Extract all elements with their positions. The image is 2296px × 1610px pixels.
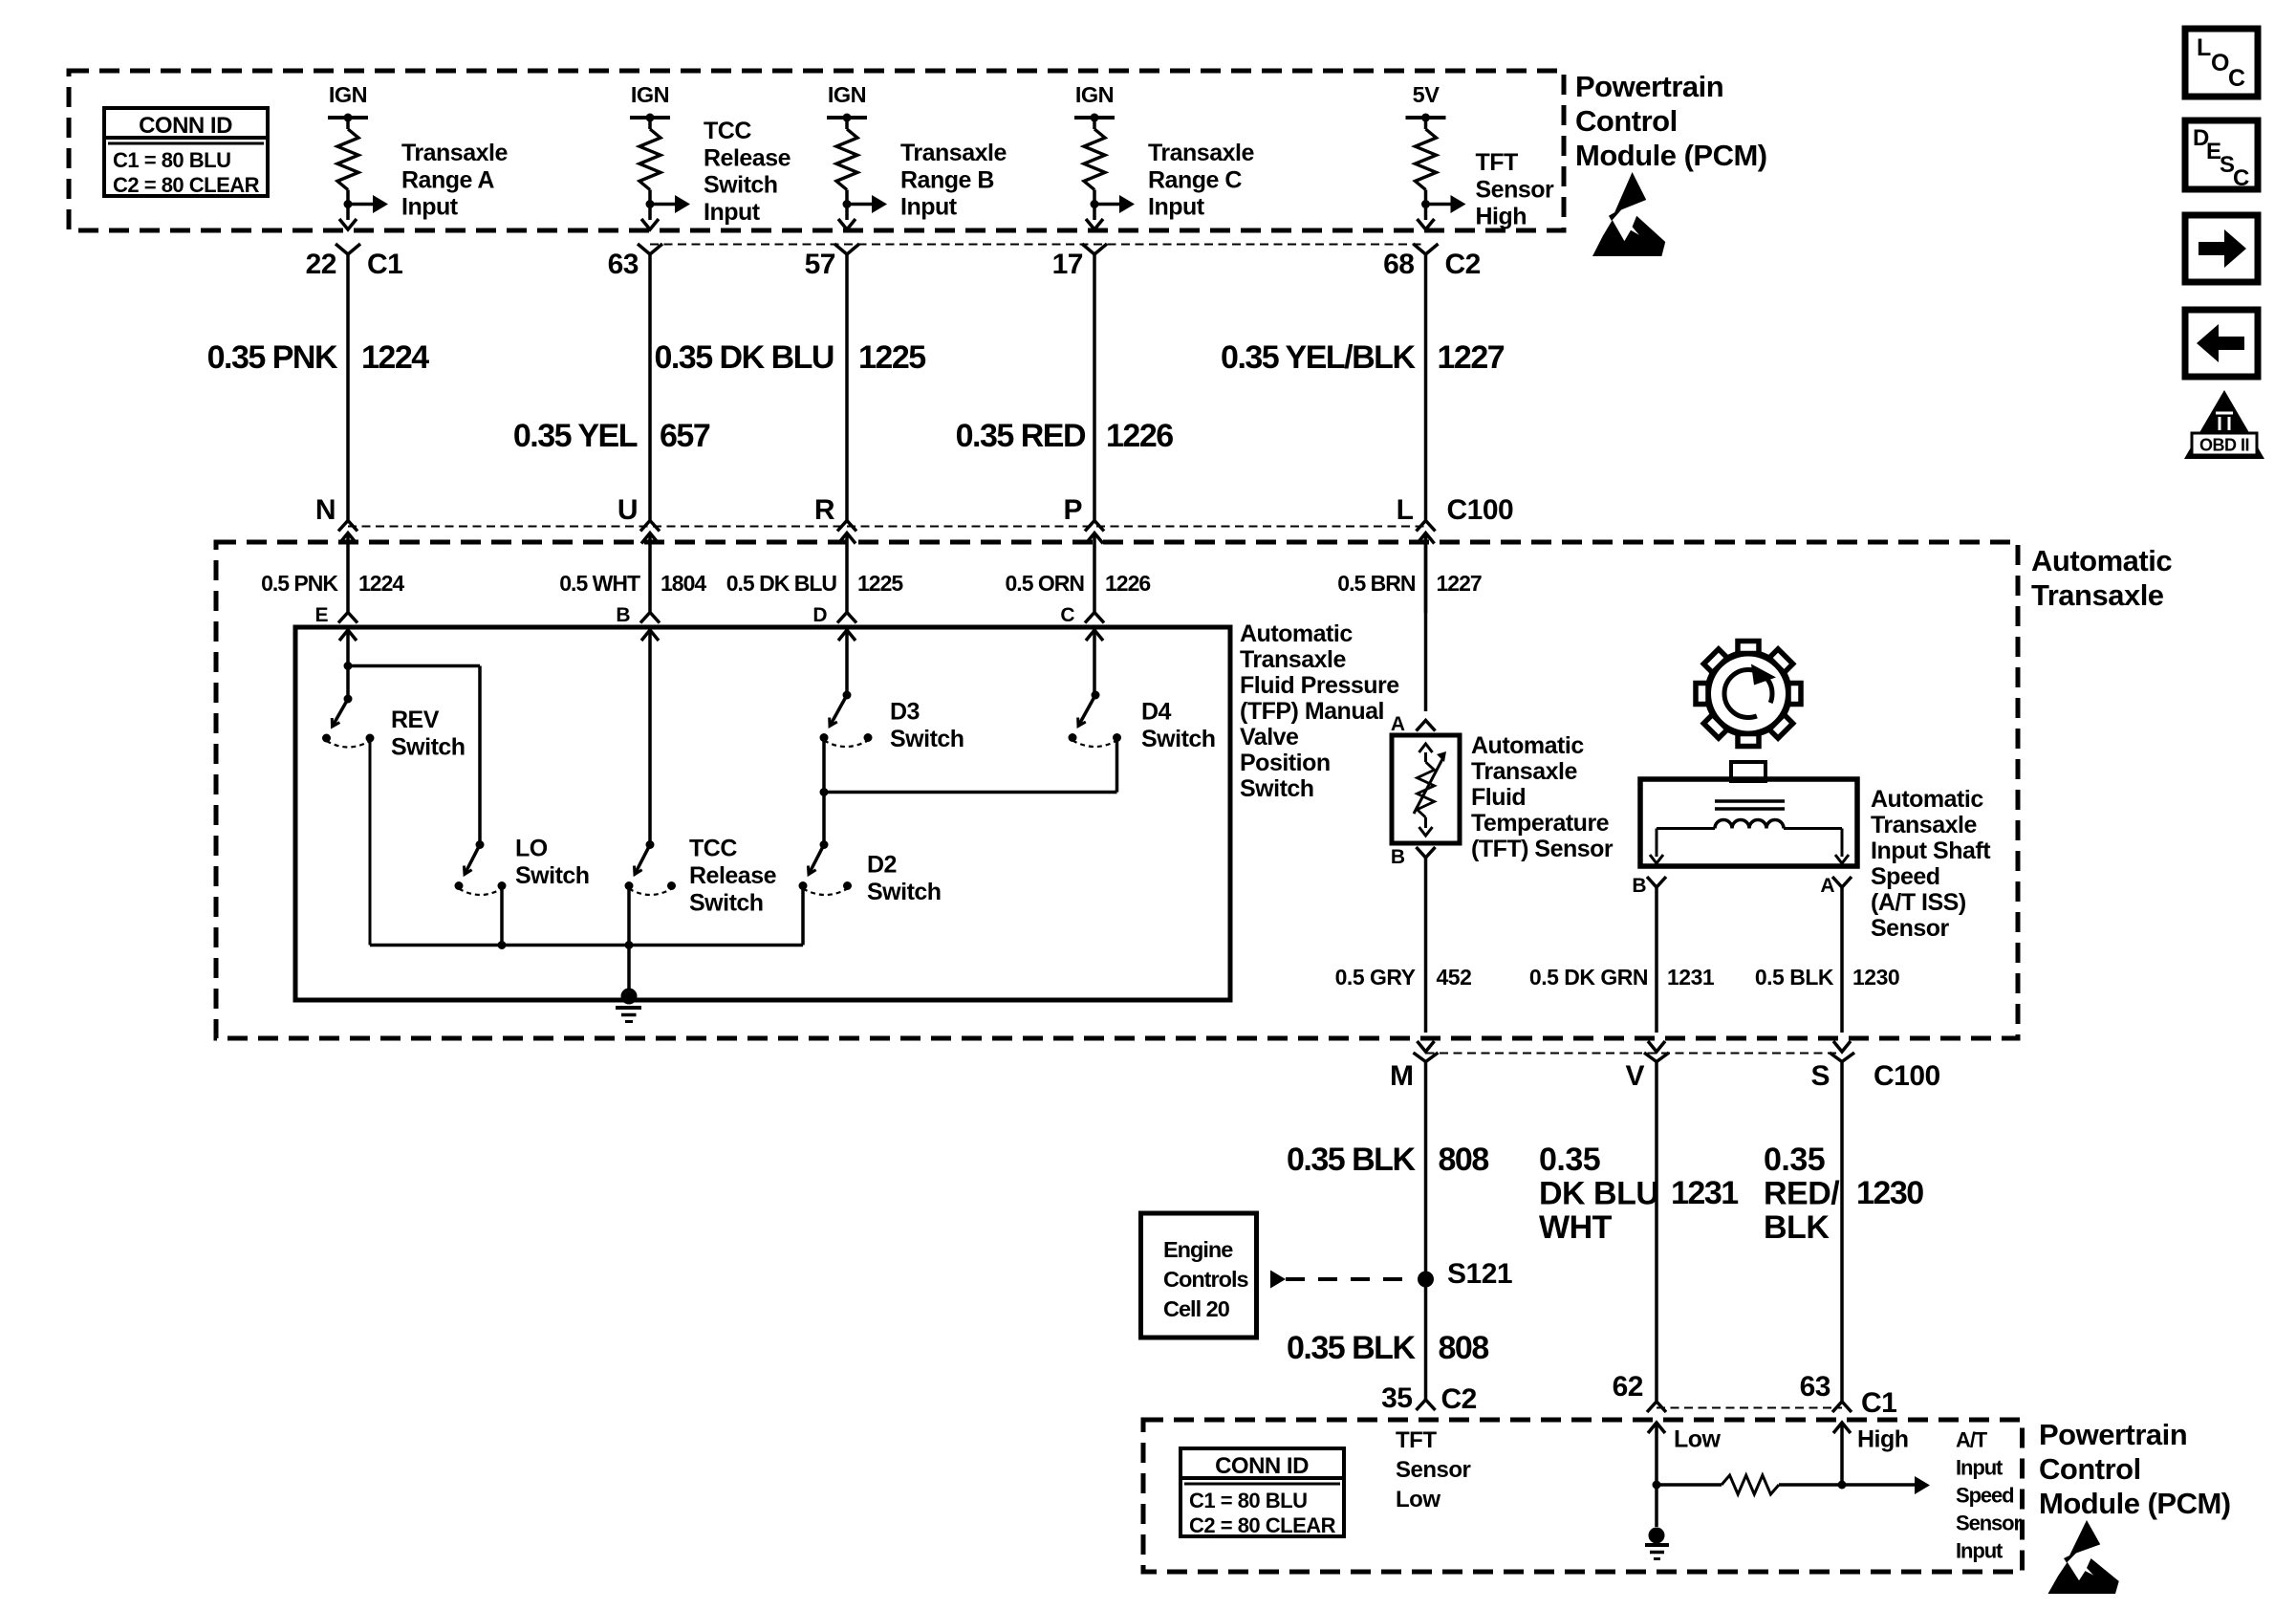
svg-text:0.5 DK GRN: 0.5 DK GRN bbox=[1529, 965, 1648, 990]
svg-text:Input: Input bbox=[1956, 1456, 2004, 1480]
svg-text:C100: C100 bbox=[1447, 494, 1514, 526]
svg-text:WHT: WHT bbox=[1539, 1209, 1613, 1246]
svg-text:Input: Input bbox=[900, 194, 958, 221]
svg-text:452: 452 bbox=[1437, 965, 1472, 990]
svg-text:U: U bbox=[617, 494, 638, 526]
svg-text:1224: 1224 bbox=[361, 339, 429, 376]
svg-text:Input: Input bbox=[1956, 1539, 2004, 1563]
svg-text:C1 = 80 BLU: C1 = 80 BLU bbox=[113, 148, 231, 172]
svg-text:Powertrain: Powertrain bbox=[1575, 70, 1723, 103]
svg-text:Powertrain: Powertrain bbox=[2039, 1418, 2187, 1451]
svg-text:High: High bbox=[1857, 1426, 1909, 1453]
svg-text:Switch: Switch bbox=[890, 726, 964, 752]
svg-text:Switch: Switch bbox=[1240, 775, 1314, 802]
svg-text:IGN: IGN bbox=[631, 82, 669, 107]
svg-text:Transaxle: Transaxle bbox=[2031, 578, 2164, 612]
svg-text:0.35 BLK: 0.35 BLK bbox=[1287, 1142, 1416, 1178]
svg-text:C2: C2 bbox=[1441, 1383, 1477, 1415]
svg-text:Sensor: Sensor bbox=[1871, 915, 1950, 942]
svg-text:1225: 1225 bbox=[858, 339, 925, 376]
svg-text:Position: Position bbox=[1240, 750, 1331, 776]
svg-text:Sensor: Sensor bbox=[1476, 176, 1555, 203]
svg-text:Release: Release bbox=[689, 862, 777, 889]
svg-text:C2: C2 bbox=[1445, 249, 1481, 280]
svg-text:1226: 1226 bbox=[1105, 571, 1150, 596]
svg-text:Cell 20: Cell 20 bbox=[1163, 1296, 1230, 1321]
svg-text:D: D bbox=[812, 604, 827, 626]
svg-text:LO: LO bbox=[515, 836, 548, 862]
svg-text:Fluid Pressure: Fluid Pressure bbox=[1240, 672, 1399, 699]
svg-text:5V: 5V bbox=[1413, 82, 1440, 107]
svg-text:Speed: Speed bbox=[1956, 1484, 2014, 1508]
svg-text:1225: 1225 bbox=[857, 571, 903, 596]
svg-text:B: B bbox=[1391, 846, 1405, 868]
svg-text:(TFP) Manual: (TFP) Manual bbox=[1240, 698, 1384, 725]
svg-text:Transaxle: Transaxle bbox=[1471, 758, 1577, 785]
svg-text:1804: 1804 bbox=[661, 571, 706, 596]
svg-text:Control: Control bbox=[2039, 1452, 2141, 1486]
svg-text:IGN: IGN bbox=[1075, 82, 1114, 107]
svg-text:TFT: TFT bbox=[1476, 149, 1519, 176]
svg-text:Transaxle: Transaxle bbox=[900, 140, 1007, 166]
svg-text:Transaxle: Transaxle bbox=[1240, 646, 1346, 673]
svg-text:Module (PCM): Module (PCM) bbox=[1575, 139, 1767, 172]
svg-text:Input: Input bbox=[401, 194, 459, 221]
svg-text:CONN ID: CONN ID bbox=[1215, 1453, 1309, 1479]
svg-text:C1: C1 bbox=[367, 249, 402, 280]
svg-text:1231: 1231 bbox=[1667, 965, 1715, 990]
svg-text:E: E bbox=[314, 604, 328, 626]
svg-text:B: B bbox=[616, 604, 630, 626]
svg-text:OBD II: OBD II bbox=[2199, 436, 2249, 455]
svg-text:0.35: 0.35 bbox=[1764, 1142, 1825, 1178]
svg-text:A: A bbox=[1391, 713, 1405, 735]
svg-text:L: L bbox=[2197, 34, 2211, 61]
svg-text:Range A: Range A bbox=[401, 166, 494, 193]
svg-text:Switch: Switch bbox=[515, 862, 590, 889]
svg-text:63: 63 bbox=[1800, 1371, 1830, 1403]
svg-text:808: 808 bbox=[1439, 1142, 1489, 1178]
svg-text:N: N bbox=[315, 494, 336, 526]
svg-text:C: C bbox=[1060, 604, 1074, 626]
svg-text:35: 35 bbox=[1381, 1382, 1412, 1414]
svg-text:63: 63 bbox=[608, 249, 639, 280]
svg-text:Automatic: Automatic bbox=[1471, 732, 1584, 759]
svg-text:0.35 BLK: 0.35 BLK bbox=[1287, 1330, 1416, 1366]
svg-text:C: C bbox=[2228, 65, 2245, 92]
svg-text:808: 808 bbox=[1439, 1330, 1489, 1366]
svg-text:0.5 PNK: 0.5 PNK bbox=[261, 571, 338, 596]
svg-text:Automatic: Automatic bbox=[1871, 786, 1983, 813]
svg-text:Transaxle: Transaxle bbox=[401, 140, 508, 166]
svg-text:BLK: BLK bbox=[1764, 1209, 1830, 1246]
svg-text:Temperature: Temperature bbox=[1471, 810, 1610, 837]
svg-text:1227: 1227 bbox=[1437, 571, 1482, 596]
svg-text:Input: Input bbox=[704, 199, 761, 226]
svg-text:1231: 1231 bbox=[1671, 1175, 1738, 1211]
svg-text:Release: Release bbox=[704, 144, 791, 171]
svg-text:0.5 BRN: 0.5 BRN bbox=[1337, 571, 1416, 596]
svg-text:D3: D3 bbox=[890, 699, 920, 726]
svg-text:Switch: Switch bbox=[689, 890, 764, 917]
svg-text:C: C bbox=[2233, 165, 2249, 191]
svg-text:Automatic: Automatic bbox=[2031, 544, 2172, 577]
svg-text:17: 17 bbox=[1052, 249, 1083, 280]
svg-text:Transaxle: Transaxle bbox=[1871, 812, 1977, 838]
svg-text:REV: REV bbox=[391, 707, 440, 733]
svg-text:68: 68 bbox=[1383, 249, 1414, 280]
svg-text:CONN ID: CONN ID bbox=[139, 113, 232, 139]
svg-text:Switch: Switch bbox=[867, 879, 942, 905]
svg-text:D2: D2 bbox=[867, 852, 897, 879]
svg-text:0.35 YEL: 0.35 YEL bbox=[513, 418, 638, 454]
svg-text:M: M bbox=[1390, 1060, 1414, 1092]
svg-text:High: High bbox=[1476, 204, 1527, 230]
svg-text:S121: S121 bbox=[1447, 1258, 1512, 1290]
svg-text:57: 57 bbox=[805, 249, 835, 280]
svg-text:Module (PCM): Module (PCM) bbox=[2039, 1487, 2231, 1520]
svg-text:O: O bbox=[2211, 50, 2229, 76]
svg-text:Range B: Range B bbox=[900, 166, 994, 193]
svg-text:1227: 1227 bbox=[1438, 339, 1505, 376]
svg-text:22: 22 bbox=[306, 249, 336, 280]
svg-text:Low: Low bbox=[1674, 1426, 1722, 1453]
svg-text:Input: Input bbox=[1148, 194, 1205, 221]
svg-text:L: L bbox=[1397, 494, 1414, 526]
svg-text:C1: C1 bbox=[1861, 1387, 1896, 1419]
svg-text:1230: 1230 bbox=[1856, 1175, 1923, 1211]
svg-text:0.35 RED: 0.35 RED bbox=[956, 418, 1086, 454]
svg-text:IGN: IGN bbox=[828, 82, 866, 107]
svg-text:D4: D4 bbox=[1141, 699, 1172, 726]
svg-text:RED/: RED/ bbox=[1764, 1176, 1840, 1212]
svg-text:TCC: TCC bbox=[704, 118, 751, 144]
svg-text:Control: Control bbox=[1575, 104, 1678, 138]
svg-text:P: P bbox=[1063, 494, 1082, 526]
svg-text:Low: Low bbox=[1396, 1487, 1440, 1512]
svg-text:1230: 1230 bbox=[1852, 965, 1899, 990]
svg-text:TCC: TCC bbox=[689, 836, 737, 862]
svg-text:A/T: A/T bbox=[1956, 1428, 1988, 1452]
svg-text:C2 = 80 CLEAR: C2 = 80 CLEAR bbox=[113, 173, 260, 197]
svg-text:DK BLU: DK BLU bbox=[1539, 1176, 1658, 1212]
svg-text:Fluid: Fluid bbox=[1471, 784, 1526, 811]
svg-text:Speed: Speed bbox=[1871, 863, 1940, 890]
svg-text:Automatic: Automatic bbox=[1240, 620, 1353, 647]
svg-text:Valve: Valve bbox=[1240, 724, 1299, 751]
svg-text:0.5 DK BLU: 0.5 DK BLU bbox=[726, 571, 837, 596]
svg-text:R: R bbox=[814, 494, 835, 526]
svg-text:C100: C100 bbox=[1874, 1060, 1940, 1092]
svg-text:0.35 YEL/BLK: 0.35 YEL/BLK bbox=[1221, 339, 1416, 376]
svg-text:Engine: Engine bbox=[1163, 1237, 1233, 1262]
svg-text:B: B bbox=[1632, 875, 1646, 897]
svg-text:62: 62 bbox=[1613, 1371, 1643, 1403]
svg-text:Sensor: Sensor bbox=[1956, 1512, 2023, 1535]
svg-text:657: 657 bbox=[660, 418, 710, 454]
svg-text:Switch: Switch bbox=[1141, 726, 1216, 752]
svg-text:0.35 DK BLU: 0.35 DK BLU bbox=[654, 339, 834, 376]
svg-text:0.5 WHT: 0.5 WHT bbox=[559, 571, 640, 596]
svg-text:Controls: Controls bbox=[1163, 1267, 1249, 1292]
svg-text:IGN: IGN bbox=[329, 82, 367, 107]
svg-text:1226: 1226 bbox=[1106, 418, 1173, 454]
svg-text:1224: 1224 bbox=[358, 571, 404, 596]
svg-text:Switch: Switch bbox=[704, 172, 778, 199]
svg-text:0.5 ORN: 0.5 ORN bbox=[1006, 571, 1085, 596]
svg-text:Switch: Switch bbox=[391, 734, 466, 761]
svg-text:TFT: TFT bbox=[1396, 1427, 1437, 1453]
svg-text:S: S bbox=[1810, 1060, 1830, 1092]
svg-text:C1 = 80 BLU: C1 = 80 BLU bbox=[1189, 1489, 1308, 1512]
svg-text:(A/T ISS): (A/T ISS) bbox=[1871, 889, 1966, 916]
svg-text:Sensor: Sensor bbox=[1396, 1457, 1471, 1483]
svg-text:Transaxle: Transaxle bbox=[1148, 140, 1254, 166]
svg-text:V: V bbox=[1625, 1060, 1644, 1092]
svg-text:0.5 BLK: 0.5 BLK bbox=[1755, 965, 1834, 990]
svg-text:(TFT) Sensor: (TFT) Sensor bbox=[1471, 836, 1614, 862]
svg-text:C2 = 80 CLEAR: C2 = 80 CLEAR bbox=[1189, 1513, 1336, 1537]
svg-text:0.35: 0.35 bbox=[1539, 1142, 1600, 1178]
svg-text:Input Shaft: Input Shaft bbox=[1871, 838, 1991, 864]
svg-text:0.5 GRY: 0.5 GRY bbox=[1335, 965, 1416, 990]
svg-text:Range C: Range C bbox=[1148, 166, 1242, 193]
svg-text:0.35 PNK: 0.35 PNK bbox=[207, 339, 338, 376]
